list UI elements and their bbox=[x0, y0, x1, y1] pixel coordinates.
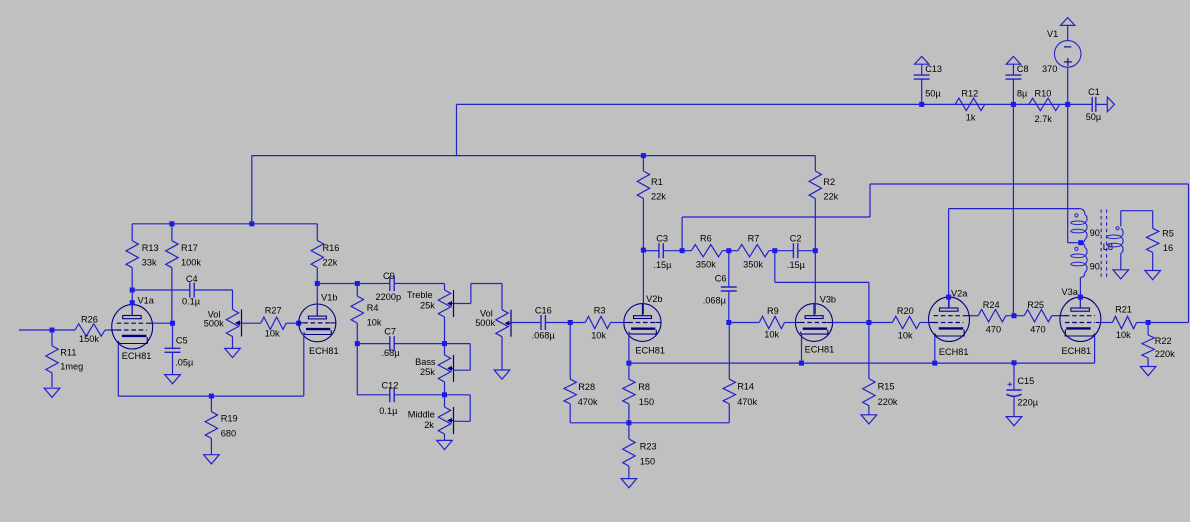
svg-text:22k: 22k bbox=[323, 258, 338, 268]
svg-text:470k: 470k bbox=[578, 397, 598, 407]
wire C15 bottom lead bbox=[1013, 396, 1015, 416]
svg-text:V2a: V2a bbox=[951, 288, 968, 298]
resistor R3 bbox=[585, 316, 610, 328]
transformer L8 primary bottom bbox=[1081, 243, 1085, 248]
svg-text:90: 90 bbox=[1090, 262, 1100, 272]
wire FB mid bbox=[682, 216, 870, 218]
capacitor C6 bbox=[721, 286, 737, 288]
svg-text:R1: R1 bbox=[651, 177, 663, 187]
wire V3b plate lead bbox=[814, 251, 816, 315]
svg-text:R22: R22 bbox=[1155, 336, 1172, 346]
svg-text:R16: R16 bbox=[323, 243, 340, 253]
svg-text:R13: R13 bbox=[142, 243, 159, 253]
junction V3b cathode bbox=[799, 361, 804, 366]
junction C5 node bbox=[170, 321, 175, 326]
potentiometer Treble 25k bbox=[438, 290, 450, 317]
wire C3 to R6 bbox=[663, 250, 691, 252]
wire B+ drop to OT bbox=[1067, 104, 1069, 242]
wire Middle tap bbox=[454, 420, 471, 422]
capacitor C2 bbox=[792, 243, 794, 258]
wire FB top bbox=[870, 183, 1189, 185]
wire Bass top lead bbox=[444, 344, 446, 355]
wire FB right bbox=[1148, 322, 1188, 324]
svg-text:.068µ: .068µ bbox=[532, 331, 556, 341]
tube V2a ECH81 heptode bbox=[929, 297, 970, 341]
power flag C8 bbox=[1006, 56, 1020, 64]
wire R5 top lead bbox=[1152, 211, 1154, 229]
resistor R25 bbox=[1024, 310, 1052, 322]
svg-text:R9: R9 bbox=[767, 306, 779, 316]
svg-text:Bass: Bass bbox=[415, 357, 436, 367]
wire to Vol2 bbox=[471, 283, 502, 285]
wire R25 to V3a bbox=[1052, 315, 1060, 317]
resistor R27 bbox=[261, 317, 287, 329]
capacitor C4 bbox=[189, 283, 191, 298]
svg-text:R7: R7 bbox=[748, 234, 760, 244]
wire Middle top lead bbox=[444, 395, 446, 407]
resistor R8 bbox=[623, 379, 635, 404]
wire R15 bottom lead bbox=[868, 406, 870, 415]
ground Middle bbox=[437, 440, 453, 449]
svg-text:R25: R25 bbox=[1027, 300, 1044, 310]
wire V1a top grid lead bbox=[153, 322, 173, 324]
ground R23 bbox=[621, 479, 637, 488]
junction R4 top bbox=[355, 281, 360, 286]
wire Vol1 tap to R27 bbox=[242, 322, 261, 324]
ground R5 bbox=[1145, 271, 1161, 280]
tube V1b ECH81 triode bbox=[299, 304, 336, 342]
svg-text:25k: 25k bbox=[420, 300, 435, 310]
wire Bass tap riser bbox=[469, 344, 471, 371]
potentiometer Middle 2k bbox=[438, 407, 450, 434]
resistor R17 bbox=[166, 241, 178, 268]
junction V2b cathode bbox=[626, 361, 631, 366]
junction V1a plate pin bbox=[130, 300, 135, 305]
wire R22 bottom lead bbox=[1147, 358, 1149, 367]
svg-text:10k: 10k bbox=[591, 331, 606, 341]
resistor R15 bbox=[863, 379, 875, 406]
wire C4 right bbox=[194, 289, 232, 291]
ground Vol1 bbox=[225, 348, 241, 357]
resistor R2 bbox=[809, 171, 821, 199]
ground R15 bbox=[861, 415, 877, 424]
svg-text:Middle: Middle bbox=[408, 410, 435, 420]
svg-text:220k: 220k bbox=[878, 397, 898, 407]
svg-text:R6: R6 bbox=[700, 234, 712, 244]
wire Vol2 bottom lead bbox=[501, 337, 503, 370]
svg-text:10k: 10k bbox=[367, 318, 382, 328]
wire R16 bottom lead bbox=[316, 268, 318, 284]
resistor R1 bbox=[637, 171, 649, 199]
svg-text:150: 150 bbox=[639, 397, 654, 407]
capacitor C3 bbox=[658, 243, 660, 258]
power flag V1 bbox=[1061, 18, 1075, 26]
junction R2 bottom bbox=[813, 248, 818, 253]
svg-text:ECH81: ECH81 bbox=[939, 347, 969, 357]
tube V1a ECH81 heptode bbox=[112, 305, 153, 349]
wire R24 to R25 bbox=[1006, 315, 1024, 317]
svg-text:C4: C4 bbox=[186, 274, 198, 284]
svg-text:.15µ: .15µ bbox=[787, 260, 806, 270]
wire R15 top lead bbox=[868, 323, 870, 379]
svg-text:220µ: 220µ bbox=[1017, 398, 1038, 408]
svg-text:500k: 500k bbox=[204, 318, 224, 328]
wire R1 bottom lead bbox=[642, 199, 644, 251]
svg-text:R8: R8 bbox=[638, 382, 650, 392]
svg-text:33k: 33k bbox=[142, 258, 157, 268]
svg-text:470: 470 bbox=[986, 325, 1001, 335]
wire V2a plate lead bbox=[948, 209, 950, 308]
svg-text:2k: 2k bbox=[424, 420, 434, 430]
junction R21 R22 bbox=[1146, 320, 1151, 325]
svg-text:8µ: 8µ bbox=[1017, 89, 1028, 99]
svg-text:16: 16 bbox=[1163, 243, 1173, 253]
wire Treble top lead bbox=[444, 284, 446, 291]
svg-text:C12: C12 bbox=[382, 381, 399, 391]
ground C15 bbox=[1006, 417, 1022, 426]
wire C6 bottom lead bbox=[728, 291, 730, 323]
resistor R11 bbox=[46, 346, 58, 373]
wire C5 top lead bbox=[172, 323, 174, 348]
wire R23 bottom lead bbox=[628, 466, 630, 479]
wire C15 top lead bbox=[1013, 363, 1015, 390]
wire C12 right bbox=[394, 394, 444, 396]
resistor R21 bbox=[1112, 316, 1136, 328]
capacitor C9 bbox=[389, 276, 391, 291]
wire R9 to V3b grid bbox=[785, 322, 796, 324]
wire C2 right bbox=[798, 250, 816, 252]
svg-text:ECH81: ECH81 bbox=[635, 346, 665, 356]
resistor R22 bbox=[1142, 335, 1154, 358]
svg-text:C8: C8 bbox=[1017, 64, 1029, 74]
svg-text:C5: C5 bbox=[176, 336, 188, 346]
wire C7 left bbox=[357, 343, 390, 345]
svg-text:C16: C16 bbox=[535, 305, 552, 315]
svg-text:10k: 10k bbox=[764, 330, 779, 340]
resistor R12 bbox=[955, 98, 985, 110]
wire C8 bottom lead bbox=[1012, 79, 1014, 104]
svg-text:.068µ: .068µ bbox=[703, 295, 727, 305]
wire secondary to R5 bbox=[1121, 210, 1153, 212]
svg-text:370: 370 bbox=[1042, 64, 1057, 74]
svg-text:R15: R15 bbox=[878, 382, 895, 392]
wire V1b plate lead bbox=[316, 284, 318, 315]
svg-text:.15µ: .15µ bbox=[653, 260, 672, 270]
wire R8 bottom row bbox=[570, 422, 729, 424]
capacitor C1 bbox=[1091, 97, 1093, 112]
resistor R26 bbox=[75, 324, 105, 336]
svg-text:V1b: V1b bbox=[321, 293, 337, 303]
source V1 bbox=[1054, 41, 1081, 68]
svg-text:C13: C13 bbox=[925, 64, 942, 74]
svg-text:R3: R3 bbox=[594, 305, 606, 315]
ground Vol2 bbox=[494, 370, 510, 379]
svg-text:150: 150 bbox=[640, 456, 655, 466]
ground R19 bbox=[204, 455, 220, 464]
wire input bbox=[19, 329, 75, 331]
svg-text:1meg: 1meg bbox=[60, 362, 83, 372]
wire R23 top lead bbox=[628, 423, 630, 439]
svg-text:680: 680 bbox=[221, 429, 236, 439]
junction R8 bottom bbox=[626, 420, 631, 425]
resistor R9 bbox=[759, 316, 784, 328]
wire R2 top lead bbox=[814, 156, 816, 171]
wire R19 bottom lead bbox=[210, 438, 212, 454]
output flag bbox=[1107, 97, 1114, 112]
junction V1b grid bbox=[296, 321, 301, 326]
svg-text:.68µ: .68µ bbox=[382, 348, 401, 358]
tube V3a ECH81 heptode mirrored bbox=[1060, 297, 1101, 341]
svg-text:R23: R23 bbox=[640, 441, 657, 451]
wire R17 top lead bbox=[171, 224, 173, 241]
junction R4 bottom bbox=[355, 341, 360, 346]
wire R4 bottom lead bbox=[356, 323, 358, 344]
wire R13 top lead bbox=[131, 224, 133, 241]
svg-text:50µ: 50µ bbox=[925, 89, 941, 99]
svg-text:ECH81: ECH81 bbox=[805, 345, 835, 355]
transformer core bbox=[1100, 210, 1102, 278]
capacitor C8 bbox=[1005, 74, 1021, 76]
svg-text:R20: R20 bbox=[897, 306, 914, 316]
wire V2a cathode lead bbox=[934, 336, 936, 363]
resistor R16 bbox=[311, 241, 323, 268]
svg-text:500k: 500k bbox=[475, 318, 495, 328]
svg-text:R12: R12 bbox=[961, 89, 978, 99]
wire Middle bottom lead bbox=[444, 434, 446, 440]
wire V3a cathode lead bbox=[1094, 336, 1096, 363]
svg-text:Vol: Vol bbox=[480, 308, 493, 318]
wire Middle tap riser bbox=[469, 395, 471, 422]
svg-text:C7: C7 bbox=[384, 327, 396, 337]
wire C8 stem bbox=[1012, 64, 1014, 75]
wire R3 to V2b grid bbox=[611, 322, 624, 324]
junction C15 node bbox=[1012, 360, 1017, 365]
svg-text:22k: 22k bbox=[651, 191, 666, 201]
wire C12 row to Middle tap bbox=[445, 394, 471, 396]
svg-text:90: 90 bbox=[1090, 228, 1100, 238]
wire C7 right bbox=[394, 343, 444, 345]
resistor R19 bbox=[205, 412, 217, 439]
junction R28 top bbox=[568, 320, 573, 325]
wire FB mid riser bbox=[869, 184, 871, 217]
wire C13 stem bbox=[921, 64, 923, 75]
svg-text:R4: R4 bbox=[367, 303, 379, 313]
svg-text:50µ: 50µ bbox=[1086, 112, 1102, 122]
junction rail drop bbox=[249, 221, 254, 226]
wire R28 top lead bbox=[569, 323, 571, 380]
wire supply rail y224 bbox=[132, 223, 317, 225]
junction V3a plate pin bbox=[1078, 295, 1083, 300]
wire FB mid drop bbox=[681, 217, 683, 251]
junction Bass bottom bbox=[442, 392, 447, 397]
svg-text:C3: C3 bbox=[656, 234, 668, 244]
junction FB node bbox=[680, 248, 685, 253]
svg-text:V1a: V1a bbox=[138, 296, 155, 306]
wire R13 bottom lead bbox=[131, 268, 133, 290]
junction V3b grid node bbox=[866, 320, 871, 325]
wire B+ drop to screens bbox=[1012, 104, 1014, 315]
wire C3 left bbox=[643, 250, 659, 252]
svg-text:C1: C1 bbox=[1088, 87, 1100, 97]
svg-text:C2: C2 bbox=[790, 234, 802, 244]
svg-text:22k: 22k bbox=[823, 191, 838, 201]
junction V1b plate node bbox=[315, 281, 320, 286]
svg-text:470k: 470k bbox=[737, 397, 757, 407]
wire Vol2 tap to C16 bbox=[511, 322, 540, 324]
wire V1a plate lead bbox=[131, 290, 133, 316]
power flag C13 bbox=[915, 56, 929, 64]
wire Vol1 top lead bbox=[232, 290, 234, 310]
resistor R24 bbox=[978, 310, 1006, 322]
potentiometer Bass 25k bbox=[438, 355, 450, 382]
wire C5 bottom lead bbox=[172, 352, 174, 374]
wire V1 stem top bbox=[1067, 25, 1069, 40]
svg-text:ECH81: ECH81 bbox=[1062, 346, 1092, 356]
wire V1a cathode lead bbox=[117, 344, 119, 397]
wire R19 top lead bbox=[210, 396, 212, 412]
wire FB horizontal bbox=[775, 281, 869, 283]
svg-text:R27: R27 bbox=[265, 306, 282, 316]
junction C8 node bbox=[1011, 102, 1016, 107]
junction screen node bbox=[1012, 313, 1017, 318]
junction R1 top bbox=[641, 153, 646, 158]
resistor R23 bbox=[623, 439, 635, 466]
wire FB right riser bbox=[1188, 184, 1190, 323]
junction C6 top bbox=[726, 248, 731, 253]
wire R1 top lead bbox=[642, 156, 644, 171]
transformer L8 primary top bbox=[1080, 209, 1085, 215]
wire R21 to node bbox=[1137, 322, 1149, 324]
junction V1 node bbox=[1065, 102, 1070, 107]
wire R2 bottom lead bbox=[814, 199, 816, 251]
resistor R14 bbox=[723, 379, 735, 404]
wire V2a plate to OT top bbox=[949, 208, 1080, 210]
wire R16 top lead bbox=[316, 224, 318, 241]
wire C13 bottom lead bbox=[921, 79, 923, 104]
junction Treble bottom bbox=[442, 341, 447, 346]
svg-text:V2b: V2b bbox=[646, 294, 662, 304]
wire V1b cathode lead bbox=[303, 335, 305, 397]
svg-text:470: 470 bbox=[1030, 325, 1045, 335]
wire R17 bottom lead bbox=[171, 268, 173, 324]
svg-text:150k: 150k bbox=[79, 334, 99, 344]
wire Bass bottom lead bbox=[444, 382, 446, 395]
svg-text:R21: R21 bbox=[1115, 304, 1132, 314]
svg-text:V3a: V3a bbox=[1062, 287, 1079, 297]
svg-text:C6: C6 bbox=[715, 273, 727, 283]
svg-text:C15: C15 bbox=[1017, 376, 1034, 386]
svg-text:0.1µ: 0.1µ bbox=[182, 297, 201, 307]
svg-text:R28: R28 bbox=[578, 382, 595, 392]
potentiometer Vol1 500k bbox=[226, 310, 238, 337]
junction R7 C2 bbox=[772, 248, 777, 253]
resistor R7 bbox=[738, 245, 769, 257]
wire rail283 left bbox=[317, 283, 390, 285]
svg-text:350k: 350k bbox=[696, 259, 716, 269]
ground R22 bbox=[1140, 367, 1156, 376]
wire cathode bus 2 bbox=[629, 362, 1095, 364]
wire B+ rail bbox=[457, 103, 1092, 105]
wire R26 to V1a grid bbox=[105, 329, 112, 331]
svg-text:R11: R11 bbox=[60, 348, 76, 358]
wire C7 row to Bass tap bbox=[445, 343, 471, 345]
wire R14 bottom lead bbox=[728, 404, 730, 423]
capacitor C5 bbox=[165, 347, 181, 349]
wire Treble bottom lead bbox=[444, 317, 446, 343]
svg-text:R24: R24 bbox=[983, 300, 1000, 310]
svg-text:1k: 1k bbox=[966, 113, 976, 123]
capacitor C15 polarized bbox=[1006, 389, 1021, 391]
svg-text:V3b: V3b bbox=[820, 295, 836, 305]
wire R8 top lead bbox=[628, 363, 630, 379]
wire V2a g2 to R24 bbox=[970, 315, 979, 317]
wire R5 bottom lead bbox=[1152, 252, 1154, 270]
wire Vol1 bottom lead bbox=[232, 337, 234, 349]
junction C13 node bbox=[919, 102, 924, 107]
wire to R11 bbox=[51, 330, 53, 346]
wire C1 to arrow bbox=[1096, 103, 1108, 105]
wire C12 left bbox=[357, 394, 390, 396]
junction rail R17 bbox=[169, 221, 174, 226]
junction R19 bbox=[209, 394, 214, 399]
svg-text:R17: R17 bbox=[181, 243, 198, 253]
wire V3a plate lead bbox=[1079, 278, 1081, 309]
svg-text:V1: V1 bbox=[1047, 29, 1058, 39]
wire R27 to V1b grid bbox=[286, 322, 298, 324]
node input junction bbox=[50, 328, 55, 333]
wire V2b cathode lead bbox=[628, 334, 630, 363]
wire R4 column to C12 row bbox=[356, 344, 358, 395]
wire rail riser x456 bbox=[456, 104, 458, 155]
capacitor C16 bbox=[540, 315, 542, 330]
wire R28 bottom lead bbox=[569, 404, 571, 423]
capacitor C7 bbox=[389, 336, 391, 351]
wire rail drop vertical bbox=[251, 156, 253, 224]
svg-text:R2: R2 bbox=[823, 177, 835, 187]
wire V3b grid right lead bbox=[833, 322, 869, 324]
svg-text:0.1µ: 0.1µ bbox=[379, 406, 398, 416]
ground R11 bbox=[44, 388, 60, 397]
wire rail y155 bbox=[252, 155, 816, 157]
tube V3b ECH81 triode bbox=[795, 304, 832, 342]
wire Bass tap bbox=[454, 369, 471, 371]
svg-text:350k: 350k bbox=[743, 259, 763, 269]
svg-text:R26: R26 bbox=[81, 315, 98, 325]
resistor R13 bbox=[126, 241, 138, 268]
wire V3b cathode lead bbox=[801, 334, 803, 363]
junction V2a plate pin bbox=[946, 295, 951, 300]
svg-text:10k: 10k bbox=[898, 331, 913, 341]
capacitor C12 bbox=[389, 387, 391, 402]
svg-text:R19: R19 bbox=[221, 414, 238, 424]
svg-text:10k: 10k bbox=[1116, 330, 1131, 340]
wire R7 to C2 bbox=[769, 250, 794, 252]
ground C5 bbox=[165, 375, 181, 384]
resistor R28 bbox=[564, 379, 576, 404]
wire C6 top lead bbox=[728, 251, 730, 287]
wire R20 to V2a grid bbox=[920, 322, 929, 324]
junction OT center tap bbox=[1078, 240, 1083, 245]
svg-text:ECH81: ECH81 bbox=[122, 351, 152, 361]
junction V1a plate node bbox=[130, 288, 135, 293]
capacitor C13 bbox=[914, 74, 930, 76]
wire C4 left bbox=[132, 289, 190, 291]
wire V1 bottom lead bbox=[1067, 67, 1069, 104]
wire Treble tap riser bbox=[470, 284, 472, 304]
resistor R4 bbox=[351, 296, 363, 323]
svg-text:R5: R5 bbox=[1162, 229, 1174, 239]
wire FB to grid node bbox=[868, 282, 870, 322]
